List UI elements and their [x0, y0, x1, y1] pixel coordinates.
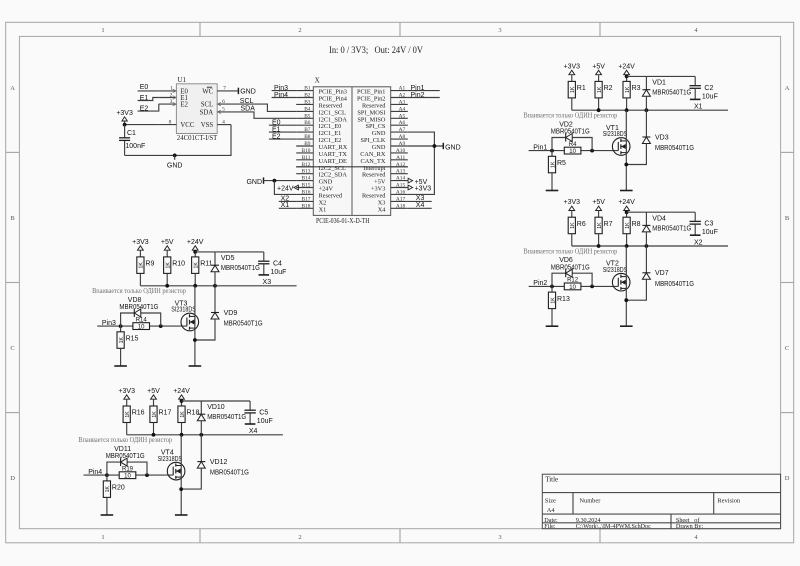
title block	[542, 474, 780, 530]
svg-text:SCL: SCL	[240, 98, 254, 105]
svg-text:1K: 1K	[550, 297, 556, 304]
svg-text:R5: R5	[557, 160, 566, 167]
ground	[546, 190, 559, 192]
svg-text:+24V: +24V	[618, 199, 635, 206]
diode VD2 MBR0540T1G	[551, 122, 592, 151]
svg-text:C: C	[10, 345, 14, 352]
wire source of VT2 to ground	[625, 288, 627, 326]
junction input node	[119, 324, 123, 328]
junction input node	[550, 149, 554, 153]
svg-text:3: 3	[170, 99, 173, 105]
resistor R13 1K	[548, 292, 570, 309]
wire input Pin1	[529, 150, 619, 152]
wire GND net under U1	[125, 125, 231, 156]
svg-text:X1: X1	[319, 206, 327, 213]
svg-text:10: 10	[569, 285, 576, 291]
svg-text:24C01CT-I/ST: 24C01CT-I/ST	[177, 134, 218, 142]
svg-text:B: B	[10, 215, 15, 222]
net label SDA	[241, 105, 256, 112]
net label X4 at X pin A18	[408, 202, 432, 209]
wire drain of VT3 to output rail	[194, 286, 196, 317]
svg-text:10uF: 10uF	[702, 229, 718, 236]
wire VD12 to source node	[181, 468, 201, 489]
junction at C1 top	[123, 123, 127, 127]
svg-text:10: 10	[569, 149, 576, 155]
net label E1 at X pin B7	[269, 127, 296, 134]
svg-text:+5V: +5V	[592, 64, 605, 71]
wire R17 to output rail	[153, 423, 155, 435]
power port +5V	[592, 199, 605, 217]
svg-text:A: A	[10, 85, 15, 92]
svg-text:VD1: VD1	[652, 80, 666, 87]
svg-text:1K: 1K	[139, 262, 145, 269]
wire Pin1 to R5	[551, 151, 553, 157]
svg-text:Drawn By:: Drawn By:	[676, 523, 704, 530]
wire R9 to output rail	[139, 273, 141, 285]
wire Pin4 to R20	[106, 475, 108, 481]
svg-text:B3: B3	[304, 99, 311, 105]
svg-text:2: 2	[170, 92, 173, 98]
svg-text:B10: B10	[302, 148, 311, 154]
svg-text:A18: A18	[396, 203, 406, 209]
svg-text:R15: R15	[126, 336, 139, 343]
junction gate node	[145, 473, 149, 477]
svg-text:1K: 1K	[597, 86, 603, 93]
wire SCL from U1 pin 6 to X pin B4	[235, 104, 296, 111]
junction gate node	[159, 324, 163, 328]
note: only ONE resistor is fitted	[524, 112, 618, 120]
power port +24V at X pin B15	[277, 185, 298, 192]
ground	[259, 274, 270, 276]
capacitor C1 100nF	[119, 125, 145, 156]
svg-text:MBR0540T1G: MBR0540T1G	[210, 470, 249, 477]
wire VD10 to output rail	[200, 421, 202, 435]
ground	[101, 514, 114, 516]
power port +24V	[618, 64, 635, 82]
svg-text:1K: 1K	[194, 262, 200, 269]
svg-text:A7: A7	[399, 127, 406, 133]
junction B14/B16 GND link	[273, 179, 277, 183]
svg-text:1: 1	[101, 27, 104, 34]
svg-text:CAN_TX: CAN_TX	[361, 158, 386, 165]
net label E1 at U1 pin 2	[138, 95, 159, 102]
svg-text:Reserved: Reserved	[362, 192, 386, 199]
svg-text:Title: Title	[545, 475, 558, 483]
wire GND net A7-A9-A16	[408, 132, 444, 194]
svg-text:MBR0540T1G: MBR0540T1G	[652, 225, 691, 232]
power port +3V3	[132, 239, 149, 257]
svg-text:X1: X1	[694, 104, 703, 111]
svg-text:Revision: Revision	[717, 498, 741, 505]
ground	[245, 423, 256, 425]
svg-text:R13: R13	[557, 296, 570, 303]
svg-text:MBR0540T1G: MBR0540T1G	[655, 281, 694, 288]
svg-text:C:\Work\..\IM-4PWM.SchDoc: C:\Work\..\IM-4PWM.SchDoc	[576, 523, 651, 530]
wire R18 to output rail	[181, 423, 183, 435]
svg-text:B13: B13	[302, 169, 311, 175]
net label Pin3	[102, 320, 116, 327]
transistor VT2 SI2318DS	[603, 261, 630, 291]
resistor R15 1K	[117, 332, 139, 349]
svg-text:+5V: +5V	[161, 239, 174, 246]
svg-text:R14: R14	[136, 317, 148, 323]
power port +5V	[592, 64, 605, 82]
svg-text:A13: A13	[396, 169, 406, 175]
svg-text:MBR0540T1G: MBR0540T1G	[224, 321, 263, 328]
power port +3V3	[564, 64, 581, 82]
wire +24V rail to capacitor	[627, 211, 696, 213]
power port GND at X pin A9	[443, 143, 460, 152]
ground	[620, 190, 633, 192]
svg-text:+5V: +5V	[592, 199, 605, 206]
junction source node	[624, 163, 628, 167]
svg-text:+3V3: +3V3	[564, 64, 581, 71]
capacitor C3 10uF	[690, 212, 718, 236]
wire input Pin2	[529, 285, 619, 287]
wire R6 to output rail	[571, 234, 573, 246]
wire +24V rail to capacitor	[182, 400, 251, 402]
svg-text:A17: A17	[396, 196, 406, 202]
svg-text:SCL: SCL	[201, 102, 213, 109]
junction source node	[193, 338, 197, 342]
svg-text:R8: R8	[632, 221, 641, 228]
resistor R8 1K	[623, 217, 641, 234]
wire Pin2 to R13	[551, 286, 553, 292]
wire +24V rail to VD1	[645, 76, 647, 89]
wire VD4 to output rail	[645, 232, 647, 246]
diode VD3 MBR0540T1G	[642, 134, 694, 152]
wire output rail X3	[140, 285, 296, 287]
net label E2 at X pin B8	[269, 133, 296, 140]
svg-text:3: 3	[498, 534, 501, 541]
net label E0 at U1 pin 1	[138, 84, 159, 91]
net label E0 at X pin B6	[269, 120, 296, 127]
svg-text:R2: R2	[604, 85, 613, 92]
svg-text:A4: A4	[547, 507, 556, 514]
svg-text:I2C1_E1: I2C1_E1	[319, 130, 342, 137]
svg-text:B11: B11	[302, 155, 311, 161]
svg-text:R4: R4	[569, 142, 577, 148]
svg-text:1K: 1K	[625, 86, 631, 93]
svg-text:R7: R7	[604, 221, 613, 228]
wire VD9 to source node	[195, 319, 215, 340]
diode VD5 MBR0540T1G	[211, 255, 260, 272]
svg-text:SI2318DS: SI2318DS	[171, 307, 196, 314]
wire source of VT3 to ground	[194, 328, 196, 366]
svg-text:B18: B18	[302, 203, 311, 209]
svg-text:Reserved: Reserved	[319, 102, 343, 109]
net label Pin2	[533, 280, 547, 287]
svg-text:C1: C1	[127, 130, 136, 137]
svg-text:SI2318DS: SI2318DS	[603, 131, 628, 138]
junction rail	[165, 284, 217, 288]
wire output rail X4	[127, 434, 283, 436]
diode VD10 MBR0540T1G	[197, 404, 246, 421]
svg-text:Size: Size	[545, 498, 556, 505]
svg-text:PCIE-036-01-X-D-TH: PCIE-036-01-X-D-TH	[316, 217, 370, 225]
svg-text:U1: U1	[178, 76, 187, 84]
svg-text:B6: B6	[304, 120, 311, 126]
svg-text:C3: C3	[704, 221, 713, 228]
junction +24V node	[625, 210, 629, 214]
resistor R18 1K	[178, 406, 200, 423]
svg-text:A3: A3	[399, 99, 406, 105]
net label X4	[249, 428, 258, 435]
svg-text:SDA: SDA	[200, 109, 214, 116]
svg-text:B14: B14	[302, 176, 311, 182]
svg-text:R19: R19	[122, 466, 134, 472]
svg-text:File:: File:	[544, 523, 556, 530]
svg-text:R12: R12	[567, 278, 579, 284]
svg-text:A1: A1	[399, 86, 406, 92]
svg-text:R1: R1	[577, 85, 586, 92]
svg-text:D: D	[785, 475, 790, 482]
net label SCL	[240, 98, 254, 105]
resistor R20 1K	[103, 481, 125, 498]
junction rail	[597, 244, 649, 248]
svg-text:C2: C2	[704, 85, 713, 92]
wire output rail to VD7	[645, 246, 647, 273]
svg-text:A6: A6	[399, 120, 406, 126]
svg-text:GND: GND	[246, 179, 262, 186]
wire R15 to ground	[120, 348, 122, 366]
svg-text:B5: B5	[304, 113, 311, 119]
wire VD7 to source node	[626, 279, 646, 300]
junction at A9	[433, 144, 437, 148]
svg-text:R20: R20	[112, 485, 125, 492]
net label Pin4	[88, 469, 102, 476]
resistor R10 1K	[164, 257, 186, 274]
net label Pin1 at X pin A1	[408, 85, 440, 92]
power port +3V3	[118, 388, 135, 406]
svg-text:+3V3: +3V3	[132, 239, 149, 246]
svg-text:A: A	[785, 85, 790, 92]
svg-text:+3V3: +3V3	[118, 388, 135, 395]
wire +24V rail to capacitor	[195, 251, 264, 253]
svg-text:MBR0540T1G: MBR0540T1G	[551, 264, 590, 271]
resistor R12 10	[564, 278, 581, 291]
wire VCC to +3V3	[125, 124, 159, 126]
svg-text:3: 3	[498, 27, 501, 34]
note: only ONE resistor is fitted	[92, 287, 186, 295]
svg-text:1: 1	[101, 534, 104, 541]
ground	[175, 514, 188, 516]
svg-text:X4: X4	[249, 428, 258, 435]
svg-text:Reserved: Reserved	[362, 102, 386, 109]
svg-text:C: C	[785, 345, 789, 352]
svg-text:B9: B9	[304, 141, 311, 147]
svg-text:VSS: VSS	[201, 122, 214, 129]
svg-text:UART_DE: UART_DE	[319, 158, 347, 165]
wire +24V rail to capacitor	[627, 75, 696, 77]
wire R20 to ground	[106, 497, 108, 515]
junction source node	[624, 298, 628, 302]
svg-text:A16: A16	[396, 189, 406, 195]
junction +24V node	[625, 75, 629, 79]
wire output rail to VD12	[200, 435, 202, 462]
wire B14 to B16	[274, 181, 296, 195]
wire +24V rail to VD4	[645, 212, 647, 225]
wire across row 12 (I2C2_SCL / Interrupt)	[296, 166, 408, 168]
svg-text:Number: Number	[579, 498, 601, 505]
diode VD1 MBR0540T1G	[642, 80, 691, 97]
wire +24V rail to VD10	[200, 401, 202, 414]
svg-text:10: 10	[124, 474, 131, 480]
svg-text:1K: 1K	[152, 411, 158, 418]
svg-text:A9: A9	[399, 141, 406, 147]
power port GND at U1 pin 7	[238, 88, 255, 96]
power port +3V3	[564, 199, 581, 217]
svg-text:B: B	[785, 215, 790, 222]
net label Pin2 at X pin A2	[408, 92, 440, 99]
svg-text:R3: R3	[632, 85, 641, 92]
power port +3V3 at X pin A15	[408, 185, 431, 193]
resistor R17 1K	[150, 406, 172, 423]
svg-text:B2: B2	[304, 93, 311, 99]
diode VD4 MBR0540T1G	[642, 215, 691, 232]
ground	[690, 98, 701, 100]
svg-text:A15: A15	[396, 183, 406, 189]
svg-text:7: 7	[223, 86, 226, 92]
wire R13 to ground	[551, 309, 553, 327]
svg-text:B1: B1	[304, 86, 311, 92]
svg-text:R16: R16	[132, 410, 145, 417]
svg-text:+24V: +24V	[173, 388, 190, 395]
net label X3 at X pin A17	[408, 195, 432, 202]
wire drain of VT1 to output rail	[625, 110, 627, 141]
svg-text:MBR0540T1G: MBR0540T1G	[551, 129, 590, 136]
svg-text:B15: B15	[302, 183, 311, 189]
wire R8 to output rail	[626, 234, 628, 246]
wire output rail to VD9	[214, 286, 216, 313]
svg-text:1K: 1K	[570, 86, 576, 93]
svg-text:VD9: VD9	[224, 310, 238, 317]
svg-text:10uF: 10uF	[271, 269, 287, 276]
svg-text:100nF: 100nF	[125, 143, 145, 150]
transistor VT1 SI2318DS	[603, 125, 630, 156]
resistor R2 1K	[595, 81, 613, 98]
diode VD8 MBR0540T1G	[119, 297, 160, 326]
svg-text:8: 8	[169, 119, 172, 125]
svg-text:6: 6	[222, 99, 225, 105]
svg-text:C4: C4	[273, 260, 282, 267]
svg-text:1K: 1K	[105, 485, 111, 492]
note: only ONE resistor is fitted	[78, 436, 172, 444]
net label E2 at U1 pin 3	[138, 104, 159, 112]
svg-text:1K: 1K	[125, 411, 131, 418]
svg-text:X4: X4	[378, 206, 387, 213]
diode VD12 MBR0540T1G	[197, 459, 249, 477]
svg-text:A8: A8	[399, 134, 406, 140]
power port +5V	[147, 388, 160, 406]
svg-text:A11: A11	[396, 155, 405, 161]
wire SDA from U1 pin 5 to X pin B5	[235, 112, 296, 118]
wire R10 to output rail	[166, 273, 168, 285]
junction input node	[105, 473, 109, 477]
svg-text:2: 2	[298, 534, 301, 541]
wire Pin3 to R15	[120, 326, 122, 332]
power port +5V	[161, 239, 174, 257]
power port +24V	[187, 239, 204, 257]
svg-text:+24V: +24V	[618, 64, 635, 71]
ground	[114, 365, 127, 367]
svg-text:+3V3: +3V3	[415, 186, 432, 193]
svg-text:R6: R6	[577, 221, 586, 228]
svg-text:VD2: VD2	[559, 122, 573, 129]
net label Pin1	[533, 144, 547, 151]
svg-text:A14: A14	[396, 176, 406, 182]
svg-text:+5V: +5V	[147, 388, 160, 395]
svg-text:In: 0 / 3V3; Out: 24V / 0V: In: 0 / 3V3; Out: 24V / 0V	[329, 46, 423, 56]
transistor VT4 SI2318DS	[158, 449, 185, 480]
svg-text:B4: B4	[304, 106, 311, 112]
svg-text:E2: E2	[180, 102, 188, 109]
svg-text:10uF: 10uF	[702, 93, 718, 100]
svg-text:Впаивается только ОДИН резисто: Впаивается только ОДИН резистор	[78, 436, 172, 444]
power port +24V	[173, 388, 190, 406]
svg-text:VCC: VCC	[180, 122, 194, 129]
svg-text:A5: A5	[399, 113, 406, 119]
svg-text:10uF: 10uF	[257, 418, 273, 425]
svg-text:A2: A2	[399, 93, 406, 99]
svg-text:GND: GND	[167, 162, 183, 169]
resistor R6 1K	[568, 217, 586, 234]
capacitor C2 10uF	[690, 76, 718, 100]
junction +24V node	[193, 250, 197, 254]
svg-text:E0: E0	[140, 84, 149, 91]
ground	[189, 365, 202, 367]
svg-text:Впаивается только ОДИН резисто: Впаивается только ОДИН резистор	[524, 112, 618, 120]
wire R2 to output rail	[598, 98, 600, 110]
svg-text:GND: GND	[240, 89, 256, 96]
svg-text:VD6: VD6	[559, 257, 573, 264]
svg-text:B8: B8	[304, 134, 311, 140]
wire R7 to output rail	[598, 234, 600, 246]
wire VD5 to output rail	[214, 272, 216, 286]
resistor R3 1K	[623, 81, 641, 98]
net label X1 at X pin B18	[279, 202, 296, 209]
power port GND below U1	[167, 155, 183, 169]
svg-text:X: X	[315, 76, 320, 84]
wire R16 to output rail	[126, 423, 128, 435]
junction rail	[152, 433, 204, 437]
junction rail	[597, 108, 649, 112]
svg-text:Впаивается только ОДИН резисто: Впаивается только ОДИН резистор	[524, 247, 618, 255]
diode VD9 MBR0540T1G	[211, 310, 263, 328]
wire R5 to ground	[551, 173, 553, 191]
svg-text:R17: R17	[159, 410, 172, 417]
resistor R14 10	[133, 317, 150, 330]
wire VD1 to output rail	[645, 96, 647, 110]
resistor R4 10	[564, 142, 581, 155]
svg-text:1K: 1K	[180, 411, 186, 418]
svg-text:R10: R10	[172, 261, 185, 268]
wire R3 to output rail	[626, 98, 628, 110]
svg-text:R11: R11	[200, 261, 212, 268]
svg-text:VD5: VD5	[221, 255, 235, 262]
svg-text:WC: WC	[202, 88, 213, 95]
wire VD3 to source node	[626, 144, 646, 165]
svg-text:1K: 1K	[166, 262, 172, 269]
diode VD7 MBR0540T1G	[642, 270, 694, 288]
resistor R11 1K	[192, 257, 213, 274]
svg-text:VD11: VD11	[114, 446, 131, 453]
svg-text:B17: B17	[302, 196, 311, 202]
capacitor C5 10uF	[244, 401, 272, 425]
svg-text:+24V: +24V	[277, 185, 294, 192]
svg-text:1K: 1K	[625, 222, 631, 229]
wire input Pin3	[97, 325, 187, 327]
